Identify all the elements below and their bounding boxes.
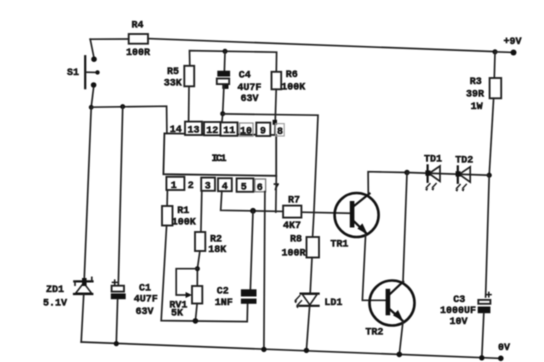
pin 11 [221, 122, 238, 137]
node TD2 right [487, 173, 492, 178]
wire TR2 collector up to node [403, 173, 407, 282]
svg-text:14: 14 [170, 125, 182, 136]
sub-rail R5 C4 R6 [190, 51, 277, 72]
wire pin 7 stub [275, 176, 278, 212]
node rail TR2 [397, 352, 403, 358]
wire C4 top drop [223, 51, 226, 70]
wire feed to R4 [90, 38, 129, 40]
node 0V terminal [498, 343, 510, 361]
wire RV1 wiper loop [176, 269, 197, 298]
svg-text:2: 2 [188, 181, 194, 192]
pin 14 [170, 125, 182, 136]
svg-text:TD1: TD1 [424, 154, 442, 165]
svg-text:1000UF: 1000UF [440, 306, 476, 317]
svg-text:R1: R1 [177, 206, 189, 217]
wire pin 6 to rail [264, 192, 265, 350]
svg-text:R8: R8 [290, 235, 302, 246]
wire C4 to pin 12 [222, 84, 224, 122]
resistor R6 [272, 70, 306, 93]
node RV1 wiper tap [195, 266, 200, 271]
svg-text:5K: 5K [171, 308, 183, 319]
potentiometer RV1 [169, 286, 202, 319]
svg-text:5: 5 [241, 182, 247, 193]
resistor R1 [162, 206, 196, 228]
svg-text:IC1: IC1 [212, 154, 227, 165]
transistor TR1 [330, 193, 378, 250]
resistor R2 [195, 232, 226, 256]
wire pin 1 to R1 [166, 191, 168, 206]
wire C1 bottom to rail [116, 299, 117, 343]
capacitor C2 [215, 287, 257, 310]
svg-text:18K: 18K [208, 245, 226, 256]
svg-text:33K: 33K [164, 78, 182, 89]
wire C2 drop [250, 211, 253, 289]
pin 9 [256, 123, 270, 138]
node RV1 bottom junction [193, 318, 199, 324]
photodiode TD2 [455, 156, 473, 192]
zener ZD1 [43, 277, 93, 309]
svg-text:S1: S1 [67, 68, 79, 79]
resistor R8 [282, 235, 320, 260]
wire R8 to LD1 [310, 258, 312, 294]
svg-text:4U7F: 4U7F [134, 295, 158, 306]
capacitor C1 [111, 279, 158, 317]
node rail LD1 [304, 348, 309, 353]
pin 1 [166, 177, 184, 192]
svg-text:100K: 100K [172, 217, 196, 228]
switch S1 [67, 56, 100, 88]
svg-text:R3: R3 [470, 77, 482, 88]
svg-text:13: 13 [188, 125, 200, 136]
svg-text:R5: R5 [167, 67, 179, 78]
svg-text:TD2: TD2 [455, 156, 473, 167]
node junction S1/ZD1 [89, 105, 94, 110]
wire TR2 emitter to rail [399, 321, 403, 354]
svg-text:4: 4 [222, 182, 228, 193]
wire pin 3 to R2 [200, 191, 203, 232]
wire S1 bottom to junction [91, 88, 93, 108]
bottom rail 0V [81, 342, 501, 358]
resistor R7 [283, 195, 301, 232]
wire junction to IC pin 14 [91, 106, 167, 134]
node C2 branch [250, 208, 256, 214]
svg-text:4U7F: 4U7F [237, 83, 261, 94]
wire TD chain [407, 173, 489, 176]
wire C3 bottom to rail [482, 313, 484, 358]
svg-text:63V: 63V [241, 94, 259, 105]
node C4 branch [220, 111, 225, 116]
svg-text:8: 8 [277, 127, 283, 138]
pin 13 [185, 122, 202, 137]
svg-text:C2: C2 [217, 287, 229, 298]
wire C1 column top [118, 107, 122, 286]
pin 3 [201, 178, 215, 193]
svg-text:0V: 0V [498, 343, 510, 354]
node +9V terminal [492, 37, 521, 56]
svg-text:R6: R6 [286, 70, 298, 81]
svg-text:100R: 100R [282, 249, 306, 260]
svg-text:9: 9 [260, 127, 266, 138]
resistor R3 [466, 52, 501, 113]
svg-text:C4: C4 [239, 70, 251, 81]
resistor R5 [164, 66, 194, 90]
svg-text:1W: 1W [471, 102, 483, 113]
wire R2 to RV1 [197, 251, 200, 286]
svg-text:1NF: 1NF [215, 298, 233, 309]
pin 6 [255, 179, 266, 194]
node C4 top [223, 49, 228, 54]
node rail C1 [114, 341, 119, 346]
svg-text:LD1: LD1 [324, 298, 342, 309]
node TR2 collector tee [404, 170, 409, 175]
wire RV1 bottom [195, 304, 197, 321]
svg-text:10V: 10V [450, 317, 468, 328]
pin 7 [273, 183, 279, 194]
pin 10 [240, 123, 254, 138]
wire R4 to +9V rail [148, 39, 495, 52]
wire R3 to TD junction [489, 98, 493, 175]
wire pin 4 to R7 [221, 191, 283, 211]
wire R5 to pin 13 [188, 86, 190, 121]
node C1 tap [120, 104, 125, 109]
wire R1 bottom to sub-ground [161, 226, 247, 322]
wire TR1 collector [368, 172, 407, 194]
svg-text:39R: 39R [466, 90, 484, 101]
wire ZD1 bottom to rail corner [81, 295, 84, 342]
svg-text:10: 10 [240, 127, 252, 138]
wire TD node down to C3 [486, 175, 490, 297]
svg-text:R7: R7 [288, 195, 300, 206]
svg-text:11: 11 [223, 126, 235, 137]
svg-text:3: 3 [205, 182, 211, 193]
node rail pin6 [261, 347, 266, 352]
pin 2 [188, 181, 194, 192]
wire LD1 to rail [306, 306, 309, 350]
led LD1 [294, 294, 342, 309]
IC1 body [163, 133, 276, 175]
resistor R4 [126, 21, 150, 60]
svg-text:+9V: +9V [504, 37, 522, 48]
svg-text:TR1: TR1 [330, 239, 348, 250]
svg-text:ZD1: ZD1 [46, 285, 64, 296]
wire TR1 emitter to TR2 base [362, 234, 385, 300]
svg-text:C3: C3 [453, 295, 465, 306]
wire C4 node to R8 column [223, 114, 318, 237]
capacitor C4 [217, 70, 262, 105]
transistor TR2 [365, 281, 414, 339]
svg-text:C1: C1 [139, 284, 151, 295]
svg-text:5.1V: 5.1V [43, 298, 67, 309]
svg-text:100K: 100K [281, 83, 305, 94]
wire rail corner down to S1 [90, 39, 94, 57]
wire R6 to pin 8 [273, 89, 277, 136]
svg-text:R2: R2 [210, 234, 222, 245]
pin 5 [237, 178, 254, 193]
svg-text:4K7: 4K7 [283, 221, 301, 232]
svg-text:12: 12 [206, 126, 218, 137]
svg-text:TR2: TR2 [365, 327, 383, 338]
svg-text:1: 1 [171, 181, 177, 192]
pin 12 [204, 122, 221, 137]
pin 8 [276, 124, 285, 139]
svg-text:63V: 63V [136, 307, 154, 318]
pin 4 [218, 178, 232, 193]
wire R7 to TR1 base [301, 212, 349, 213]
photodiode TD1 [424, 154, 442, 191]
svg-text:6: 6 [257, 183, 263, 194]
node rail C3 [479, 355, 484, 360]
svg-text:R4: R4 [132, 21, 144, 32]
capacitor C3 [440, 292, 492, 328]
wire ZD1 column top [84, 107, 91, 277]
svg-text:100R: 100R [126, 48, 150, 59]
